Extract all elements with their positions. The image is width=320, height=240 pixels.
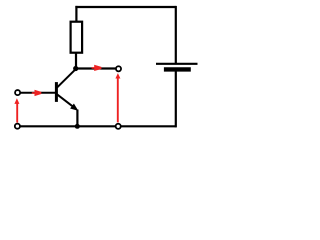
wire: resistor top stub bbox=[75, 6, 77, 22]
red arrowhead: collector current bbox=[94, 65, 101, 71]
transistor Q1 base bar bbox=[55, 82, 58, 102]
junction dot: collector node bbox=[73, 66, 78, 71]
transistor Q1 emitter lead bbox=[57, 94, 76, 109]
terminal: collector output port bbox=[116, 66, 121, 71]
battery negative plate (short thick) bbox=[164, 67, 191, 71]
red arrow: emitter current up (right) head bbox=[115, 73, 120, 78]
terminal: base input port bbox=[15, 90, 20, 95]
transistor Q1 emitter arrowhead bbox=[70, 104, 78, 111]
wire: base lead bbox=[20, 92, 55, 94]
wire: collector output to terminal bbox=[76, 67, 116, 69]
transistor Q1 collector lead bbox=[57, 69, 76, 88]
red arrow: emitter current up (right) shaft bbox=[117, 78, 119, 122]
wire: emitter down to bottom rail bbox=[76, 110, 78, 127]
red arrowhead: base current tail bbox=[32, 92, 35, 94]
red arrowhead: collector current tail bbox=[92, 67, 95, 69]
terminal: bottom middle port bbox=[116, 124, 121, 129]
terminal: bottom left port bbox=[15, 124, 20, 129]
wire: right side up to battery - plate bbox=[175, 71, 177, 127]
wire: right side down to battery + plate bbox=[175, 6, 177, 63]
wire: bottom rail bbox=[18, 125, 176, 127]
wire: resistor bottom stub to collector node bbox=[75, 53, 77, 69]
red arrow: input current up (left) head bbox=[14, 98, 19, 104]
red arrowhead: base current bbox=[35, 90, 42, 96]
battery positive plate (long) bbox=[156, 63, 198, 65]
resistor body bbox=[71, 22, 83, 53]
red arrow: input current up (left) shaft bbox=[16, 104, 18, 123]
wire: top rail from resistor to battery bbox=[75, 6, 175, 8]
junction dot: emitter node bbox=[75, 124, 80, 129]
